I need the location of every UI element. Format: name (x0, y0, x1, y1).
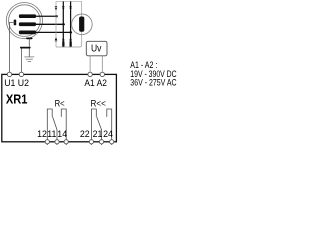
generator winding bar phase 1 (19, 14, 36, 18)
terminal 24 (110, 140, 114, 145)
svg-text:24: 24 (103, 129, 113, 139)
terminal 12 (45, 140, 49, 145)
svg-text:21: 21 (93, 129, 103, 139)
svg-text:14: 14 (57, 129, 67, 139)
wire Uv to A2 (101, 56, 103, 72)
svg-text:R<: R< (55, 97, 65, 108)
network line A vertical (55, 1, 57, 47)
voltage transformer circle (72, 14, 93, 35)
earthing bar (20, 47, 31, 49)
wire U2 up to earthing bar (20, 48, 22, 73)
svg-text:36V - 275V AC: 36V - 275V AC (130, 77, 177, 87)
svg-text:11: 11 (47, 129, 56, 139)
contact R<< NO hook (24) (107, 109, 112, 142)
contact R< blade and common (11) (53, 117, 57, 142)
terminal A1 (88, 72, 92, 76)
phase line L2 (36, 23, 64, 25)
terminal U2 (19, 72, 23, 76)
generator star-point bar (26, 38, 32, 40)
svg-text:U1 U2: U1 U2 (4, 77, 29, 88)
terminal A2 (100, 72, 104, 76)
disconnect symbol top line C (69, 7, 71, 11)
svg-text:XR1: XR1 (6, 91, 28, 106)
voltage transformer winding bar (79, 17, 84, 32)
junction dot L1 (55, 15, 58, 17)
disconnect symbol top line B (62, 7, 64, 11)
contact R<< blade and common (21) (97, 117, 102, 142)
svg-text:22: 22 (80, 129, 90, 139)
network line C vertical (70, 1, 72, 41)
contact R< NC hook (12) (47, 109, 52, 142)
svg-text:R<<: R<< (91, 97, 107, 108)
supply unit Uv box (86, 41, 107, 56)
svg-text:A1 A2: A1 A2 (84, 77, 107, 88)
svg-text:Uv: Uv (91, 44, 101, 55)
terminal 22 (89, 140, 93, 145)
terminal 14 (64, 140, 68, 145)
bottom bus wire to transformer (56, 1, 82, 47)
wire earthing bar to earth (28, 49, 30, 57)
wire Uv to A1 (89, 56, 91, 72)
junction dot L3 (69, 31, 72, 33)
network line B vertical (62, 1, 64, 41)
contact R<< NC hook (22) (91, 109, 96, 142)
generator winding bar phase 3 (19, 31, 36, 35)
generator brush terminal bar (14, 20, 17, 26)
generator G (double circle) (6, 3, 42, 39)
disconnect symbol top line A (55, 7, 57, 11)
terminal U1 (7, 72, 11, 76)
disconnect symbol lower line A (55, 37, 57, 41)
disconnect symbol lower line C (69, 37, 71, 41)
wire generator terminal to U1 (9, 22, 15, 72)
generator winding bar phase 2 (19, 22, 36, 26)
top bus wire (56, 0, 82, 2)
phase line L1 (36, 15, 56, 17)
winding bar on line C (70, 41, 72, 47)
note A1 - A2 ratings (130, 60, 177, 87)
junction dot L2 (62, 23, 65, 25)
disconnect symbol lower line B (62, 37, 64, 41)
wire star point to earthing bar (28, 39, 30, 47)
contact R< NO hook (14) (61, 109, 66, 142)
terminal 21 (99, 140, 103, 145)
device XR1 box (2, 74, 117, 141)
svg-text:12: 12 (37, 129, 47, 139)
ground (earth symbol) (24, 57, 34, 62)
phase line L3 (36, 31, 71, 33)
terminal 11 (55, 140, 59, 145)
winding bar on line B (62, 41, 64, 47)
